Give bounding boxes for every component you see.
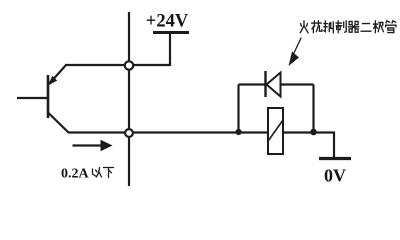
- glyph 花: [311, 21, 322, 33]
- node: top terminal circle: [125, 61, 133, 69]
- glyph 火: [300, 21, 308, 33]
- wire: top horizontal from transistor to +24V riser: [65, 64, 170, 66]
- wire: top-left horizontal of diode branch: [239, 83, 266, 85]
- transistor Q1 (PNP) base bar: [47, 75, 50, 118]
- relay coil K1 diagonal slash: [269, 120, 284, 141]
- ground 0V bar: [319, 157, 351, 160]
- glyph 二: [361, 24, 371, 32]
- relay coil K1 box: [268, 108, 283, 154]
- svg-text:+24V: +24V: [146, 12, 189, 32]
- label 下 (hand-drawn glyph): [104, 168, 114, 178]
- transistor Q1 base lead: [17, 97, 48, 99]
- glyph 管: [386, 21, 396, 33]
- transistor Q1 collector diagonal: [48, 113, 69, 133]
- junction dot right: [310, 129, 317, 136]
- transistor Q1 emitter arrowhead: [49, 76, 57, 84]
- diode D1 left branch vertical wire: [237, 85, 239, 133]
- wire: right branch vertical: [312, 85, 314, 133]
- pointer line from label to diode: [294, 38, 301, 53]
- glyph 极: [373, 21, 383, 33]
- wire: riser to +24V rail: [169, 32, 171, 66]
- wire: bottom horizontal bus: [68, 131, 334, 133]
- svg-text:0.2A: 0.2A: [61, 167, 90, 182]
- diode D1 cathode bar: [264, 71, 266, 97]
- wire: top-right horizontal of diode branch: [281, 83, 314, 85]
- wire: drop to 0V ground: [333, 132, 335, 159]
- junction dot left: [235, 129, 241, 135]
- node: bottom terminal circle: [125, 129, 133, 137]
- current direction arrow 0.2A: [73, 144, 104, 146]
- glyph 器: [348, 21, 358, 32]
- glyph 抑: [324, 21, 334, 33]
- wire: main vertical bus: [128, 12, 130, 186]
- label 以 (hand-drawn glyph): [93, 168, 102, 178]
- pointer arrowhead: [289, 52, 300, 67]
- transistor Q1 emitter diagonal: [49, 65, 66, 84]
- +24V rail bar: [153, 31, 189, 34]
- svg-text:0V: 0V: [324, 166, 346, 186]
- glyph 制: [336, 21, 346, 33]
- diode D1 triangle: [267, 73, 281, 97]
